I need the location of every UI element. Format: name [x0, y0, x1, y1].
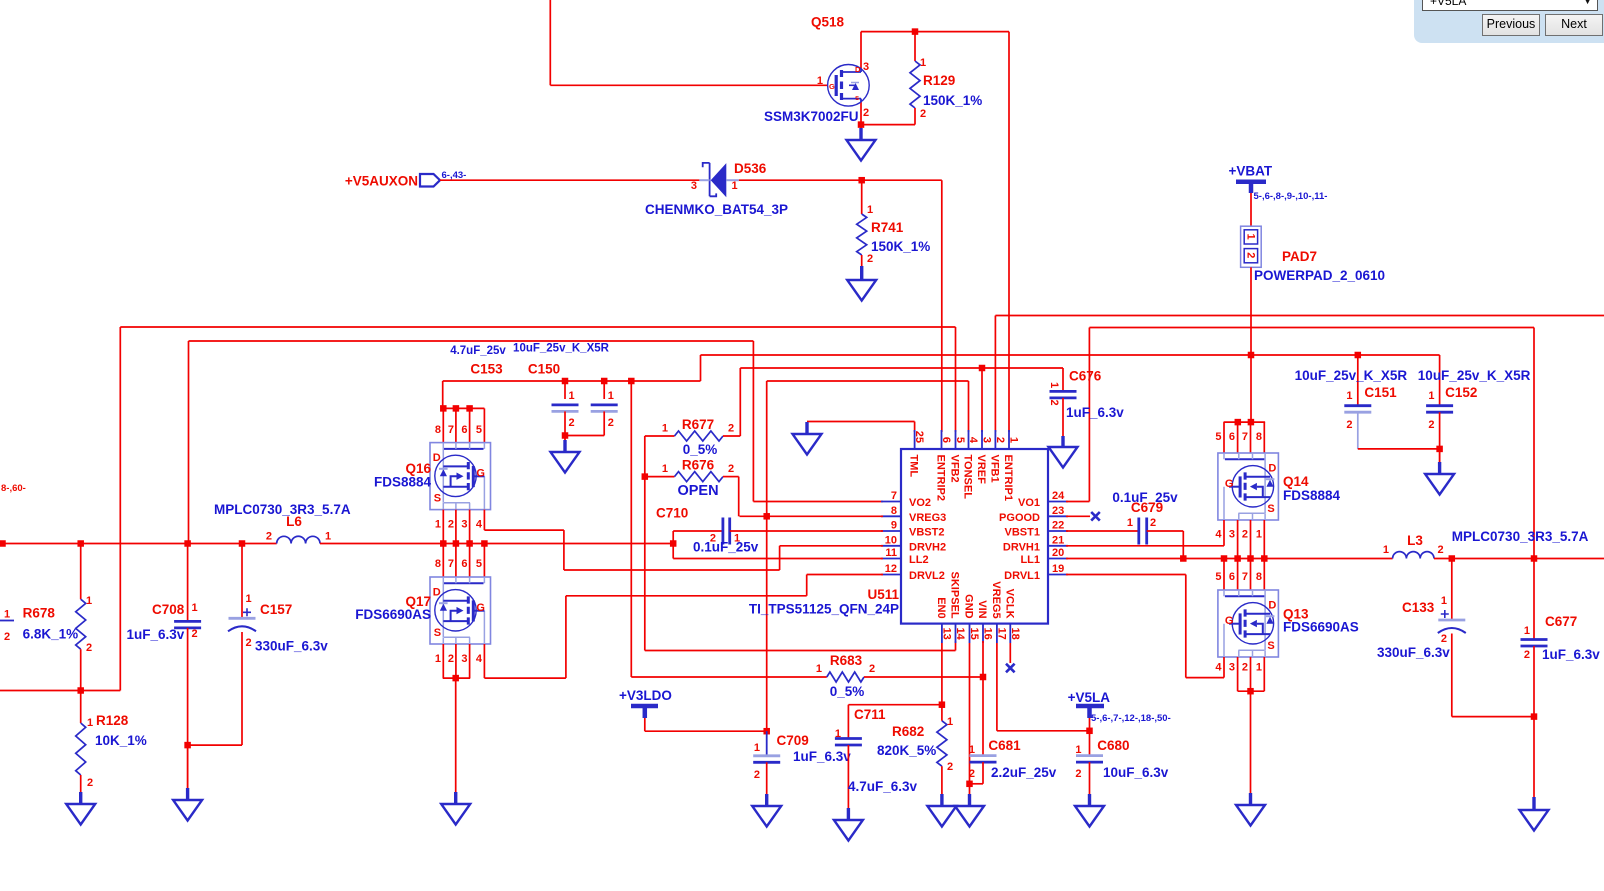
capacitor C152: [1426, 404, 1453, 407]
wire R676 right lead: [723, 476, 739, 478]
wire C157 top lead: [241, 544, 243, 619]
wire R683 to VIN pin: [864, 676, 983, 678]
pin 7 VO2: [881, 501, 901, 503]
ground under R682: [927, 794, 956, 827]
svg-text:LL2: LL2: [909, 554, 929, 566]
svg-text:G: G: [476, 602, 485, 614]
svg-text:1: 1: [662, 463, 668, 475]
ground under R741: [847, 266, 876, 301]
ground under C680: [1075, 794, 1104, 827]
svg-text:7: 7: [891, 490, 897, 502]
svg-text:10uF_25v_K_X5R: 10uF_25v_K_X5R: [513, 343, 610, 355]
wire Q17 source stub: [442, 644, 444, 678]
wire Q17 gate stub: [483, 644, 485, 678]
pin 1 ENTRIP1: [1008, 430, 1010, 449]
wire Q16 top pin stub: [455, 408, 457, 442]
svg-text:3: 3: [691, 180, 697, 192]
wire C710.2 to rail: [672, 531, 674, 544]
junction C708/VO2: [184, 540, 191, 547]
svg-text:C680: C680: [1097, 738, 1129, 753]
wire GND pin15 down: [969, 643, 971, 806]
wire VBST1 lead: [1066, 530, 1139, 532]
button Next: [1545, 14, 1603, 36]
wire Q13 source to gnd: [1250, 691, 1252, 805]
svg-text:C151: C151: [1364, 385, 1397, 400]
svg-text:1: 1: [1346, 390, 1352, 402]
svg-text:6: 6: [461, 424, 467, 436]
svg-text:G: G: [829, 82, 835, 91]
svg-text:2: 2: [994, 437, 1006, 443]
wire C676 top lead: [1062, 368, 1064, 391]
wire R677 right lead: [723, 435, 740, 437]
ground under C676: [1049, 436, 1078, 468]
wire Q14 source stub: [1237, 520, 1239, 559]
wire VO2 net: [189, 340, 754, 342]
svg-text:D: D: [855, 65, 861, 74]
svg-text:3: 3: [981, 437, 993, 443]
wire C708 top lead: [187, 544, 189, 621]
svg-text:2: 2: [947, 761, 953, 773]
wire V3LDO stem: [644, 718, 646, 731]
svg-text:820K_5%: 820K_5%: [877, 743, 936, 758]
svg-text:6: 6: [940, 437, 952, 443]
svg-text:DRVL2: DRVL2: [909, 570, 945, 582]
wire C711 top tie: [848, 704, 942, 706]
wire Q13 sources tie: [1238, 690, 1265, 692]
junction V5LA: [1086, 728, 1093, 735]
wire VFB1 vertical to pin 2: [994, 316, 996, 433]
wire Q13 source stub: [1263, 657, 1265, 691]
wire VBST1 to rail: [1182, 531, 1184, 558]
transistor Q14 FDS8884: [1218, 453, 1279, 520]
svg-text:24: 24: [1052, 490, 1065, 502]
ground TML: [793, 422, 822, 455]
junction C152 gnd: [1436, 446, 1443, 453]
wire VFB1 net: [995, 315, 1604, 317]
svg-text:5: 5: [476, 558, 482, 570]
svg-text:1: 1: [1441, 595, 1447, 607]
wire VFB2 vertical to pin 5: [955, 327, 957, 432]
wire cap grounds tie: [565, 435, 604, 437]
junction Q16 pin8: [440, 405, 447, 412]
transistor Q13 FDS6690AS: [1218, 590, 1279, 657]
svg-text:8: 8: [435, 558, 441, 570]
wire C680 top lead: [1089, 731, 1091, 755]
ground output right: [1520, 797, 1549, 831]
wire R682 bottom lead: [941, 766, 943, 806]
svg-text:+VBAT: +VBAT: [1229, 164, 1273, 179]
pin 9 VBST2: [881, 530, 901, 532]
wire SKIPSEL net: [645, 650, 956, 652]
junction R676.1: [642, 473, 649, 480]
svg-text:PGOOD: PGOOD: [999, 512, 1040, 524]
capacitor C133: [1438, 619, 1465, 622]
wire VO1 pin lead: [1066, 501, 1089, 503]
svg-text:6: 6: [1229, 571, 1235, 583]
wire C677 bottom lead: [1533, 646, 1535, 717]
wire PGOOD lead: [1066, 515, 1090, 517]
ground under C152: [1439, 449, 1441, 462]
wire C133 to gnd net: [1452, 716, 1534, 718]
svg-text:1: 1: [325, 531, 331, 543]
ground under Q13: [1236, 793, 1265, 826]
capacitor C157: [229, 617, 256, 620]
svg-text:C708: C708: [152, 602, 185, 617]
junction C681 gnd: [966, 781, 973, 788]
svg-text:C676: C676: [1069, 369, 1102, 384]
svg-text:C681: C681: [988, 738, 1021, 753]
wire C152 bottom lead: [1439, 412, 1441, 449]
svg-text:D536: D536: [734, 161, 767, 176]
capacitor C150: [591, 403, 618, 406]
pin 21 DRVH1: [1048, 545, 1068, 547]
svg-text:2: 2: [869, 663, 875, 675]
wire Q13 top pin stub: [1263, 559, 1265, 591]
pad PAD7: [1241, 226, 1262, 267]
wire DRVH2 run: [564, 569, 780, 571]
wire R678 bottom lead: [80, 649, 82, 690]
svg-text:s: s: [855, 93, 859, 102]
wire VIN pin16 stub: [982, 641, 984, 677]
wire VO1 vertical: [1088, 328, 1090, 502]
wire Q16 drain tie: [443, 407, 485, 409]
junction VIN feed: [628, 378, 635, 385]
capacitor C153: [552, 403, 579, 406]
resistor R678: [76, 599, 86, 649]
wire VBST2 row: [730, 530, 883, 532]
svg-text:1: 1: [86, 595, 92, 607]
wire R741 top lead: [861, 180, 863, 214]
junction R741 top: [858, 177, 865, 184]
junction cap ground: [562, 432, 569, 439]
junction VREF pin3: [979, 365, 986, 372]
wire V5LA stem: [1089, 718, 1091, 731]
ground under Q17: [441, 792, 470, 825]
wire DRVH2 row: [780, 545, 883, 547]
wire Q13 top pin stub: [1223, 559, 1225, 591]
svg-text:1: 1: [754, 742, 760, 754]
junction Q14 pin6: [1235, 419, 1242, 426]
wire Q16 source stub: [442, 510, 444, 544]
wire TONSEL vertical: [968, 381, 970, 432]
junction C677/VO1: [1531, 555, 1538, 562]
svg-text:2: 2: [1441, 633, 1447, 645]
svg-text:2: 2: [1524, 649, 1530, 661]
wire DRVL2 down to gate: [565, 596, 567, 678]
pin 3 VREF: [981, 430, 983, 449]
svg-text:S: S: [1267, 640, 1274, 652]
svg-text:C710: C710: [656, 506, 688, 521]
transistor Q16 FDS8884: [430, 443, 491, 510]
svg-text:U511: U511: [867, 587, 899, 602]
capacitor C681: [970, 754, 997, 757]
svg-text:C152: C152: [1445, 385, 1477, 400]
svg-text:PAD7: PAD7: [1282, 249, 1317, 264]
pin 16 VIN: [982, 624, 984, 643]
wire VO2 tap vertical: [188, 341, 190, 544]
junction Q17 drain: [481, 540, 488, 547]
svg-text:FDS8884: FDS8884: [374, 475, 432, 490]
junction VREG3 row: [763, 513, 770, 520]
wire gate feed vertical: [549, 0, 551, 85]
wire DRVL1 lead: [1066, 574, 1186, 576]
svg-text:FDS6690AS: FDS6690AS: [355, 607, 431, 622]
svg-text:1: 1: [1428, 390, 1434, 402]
junction rail: [466, 540, 473, 547]
svg-text:330uF_6.3v: 330uF_6.3v: [255, 639, 328, 654]
wire VREF vertical: [981, 368, 983, 432]
svg-text:2: 2: [1438, 544, 1444, 556]
wire Q518 drain up: [860, 32, 862, 69]
svg-text:DRVH1: DRVH1: [1003, 541, 1040, 553]
svg-text:L6: L6: [286, 514, 302, 529]
svg-text:12: 12: [885, 563, 897, 575]
wire Q17 gate tie: [484, 677, 566, 679]
junction Q518 source: [858, 121, 865, 128]
svg-text:1: 1: [835, 728, 841, 740]
svg-text:POWERPAD_2_0610: POWERPAD_2_0610: [1254, 268, 1385, 283]
svg-text:SKIPSEL: SKIPSEL: [949, 572, 961, 619]
wire SKIPSEL pin14 stub: [955, 641, 957, 651]
svg-text:R677: R677: [682, 417, 714, 432]
wire SKIPSEL vertical: [644, 477, 646, 651]
svg-text:C133: C133: [1402, 600, 1435, 615]
wire Q16 top pin stub: [442, 408, 444, 442]
svg-text:2: 2: [754, 769, 760, 781]
svg-text:5: 5: [476, 424, 482, 436]
junction C157: [239, 540, 246, 547]
svg-text:OPEN: OPEN: [677, 483, 718, 499]
svg-text:+V5LA: +V5LA: [1068, 690, 1111, 705]
svg-text:6: 6: [1229, 431, 1235, 443]
svg-text:1: 1: [569, 390, 575, 402]
svg-text:2: 2: [1242, 662, 1248, 674]
svg-text:C709: C709: [777, 733, 809, 748]
svg-text:2: 2: [920, 108, 926, 120]
wire VFB2 net: [120, 326, 955, 328]
pin 15 GND: [969, 624, 971, 643]
svg-text:2: 2: [246, 637, 252, 649]
svg-text:2: 2: [1428, 419, 1434, 431]
pin 13 EN0: [941, 624, 943, 643]
svg-text:2: 2: [1242, 529, 1248, 541]
wire Q16 source stub: [455, 510, 457, 544]
svg-text:1: 1: [435, 653, 441, 665]
svg-text:13: 13: [940, 628, 952, 640]
wire to Q518 gate: [550, 84, 827, 86]
wire Q13 source stub: [1237, 657, 1239, 691]
wire divider tap offpage: [0, 690, 120, 692]
svg-text:VIN: VIN: [976, 600, 988, 618]
wire LL2 row: [673, 558, 883, 560]
svg-text:D: D: [1268, 462, 1276, 474]
svg-text:C677: C677: [1545, 614, 1577, 629]
junction C150: [601, 378, 608, 385]
wire C153 top lead: [564, 381, 566, 399]
junction C679 rail: [1180, 555, 1187, 562]
svg-text:18: 18: [1009, 628, 1021, 640]
resistor R683: [827, 672, 864, 682]
wire Q13 top pin stub: [1250, 559, 1252, 591]
svg-text:MPLC0730_3R3_5.7A: MPLC0730_3R3_5.7A: [214, 502, 351, 517]
wire output rail left: [0, 543, 277, 545]
svg-text:Q518: Q518: [811, 15, 845, 30]
svg-text:R128: R128: [96, 713, 129, 728]
capacitor C677: [1521, 638, 1548, 641]
junction rail: [453, 540, 460, 547]
wire Q16 gate stub: [483, 510, 485, 530]
svg-text:2: 2: [192, 628, 198, 640]
wire Q17 top pin stub: [442, 544, 444, 578]
wire C711 bottom lead: [847, 745, 849, 820]
wire Q17 source stub: [469, 644, 471, 678]
wire gate jog down: [563, 530, 565, 570]
svg-text:2: 2: [448, 519, 454, 531]
svg-text:8: 8: [891, 505, 897, 517]
wire output rail right: [1434, 558, 1604, 560]
wire Q17 top pin stub: [455, 544, 457, 578]
svg-text:15: 15: [968, 628, 980, 640]
wire cap bottoms tie: [188, 744, 242, 746]
wire VIN vertical: [630, 381, 632, 677]
op-amp U511 TI_TPS51125_QFN_24P body: [901, 449, 1048, 624]
svg-text:VCLK: VCLK: [1003, 589, 1015, 619]
wire VBAT distribution: [701, 354, 1440, 356]
diode D536: [699, 163, 739, 197]
svg-text:VO1: VO1: [1018, 497, 1040, 509]
svg-text:10uF_6.3v: 10uF_6.3v: [1103, 765, 1169, 780]
wire Q14 top pin stub: [1263, 422, 1265, 453]
svg-text:1: 1: [920, 57, 926, 69]
wire C151/C152 gnd tie: [1358, 448, 1440, 450]
wire Q14 top pin stub: [1237, 422, 1239, 453]
wire Q14 source stub: [1250, 520, 1252, 559]
svg-text:4: 4: [967, 437, 979, 444]
wire Q13 source stub: [1250, 657, 1252, 691]
capacitor C708: [174, 620, 201, 623]
svg-text:VO2: VO2: [909, 497, 931, 509]
svg-text:3: 3: [863, 61, 869, 73]
wire VO1 to output rail: [1533, 328, 1535, 559]
svg-text:1: 1: [969, 744, 975, 756]
resistor R741: [857, 214, 867, 255]
wire R676.2 to VREG3: [738, 477, 740, 517]
wire VREF net: [740, 367, 1063, 369]
resistor R676: [675, 472, 724, 482]
svg-text:2: 2: [87, 777, 93, 789]
junction rail LL1: [1247, 555, 1254, 562]
wire R129 bottom lead: [914, 108, 916, 125]
wire Q14 top pin stub: [1223, 422, 1225, 453]
svg-text:4: 4: [476, 519, 483, 531]
svg-text:1: 1: [817, 75, 823, 87]
svg-text:2.2uF_25v: 2.2uF_25v: [991, 765, 1057, 780]
junction Q16 pin6: [466, 405, 473, 412]
wire DRVL1 to Q13 gate: [1186, 677, 1224, 679]
junction R129 top: [912, 28, 919, 34]
svg-text:10uF_25v_K_X5R: 10uF_25v_K_X5R: [1418, 368, 1531, 383]
pin 6 ENTRIP2: [941, 430, 943, 449]
svg-text:+V3LDO: +V3LDO: [619, 688, 672, 703]
port +V5AUXON: [420, 174, 440, 187]
svg-text:5-,6-,8-,9-,10-,11-: 5-,6-,8-,9-,10-,11-: [1254, 191, 1328, 202]
pin 10 DRVH2: [881, 545, 901, 547]
svg-text:1: 1: [1256, 662, 1262, 674]
wire TONSEL net: [767, 380, 969, 382]
svg-text:2: 2: [86, 642, 92, 654]
pin 19 DRVL1: [1048, 574, 1068, 576]
inductor L3: [1393, 552, 1434, 559]
pin 18 VCLK: [1009, 624, 1011, 643]
wire C677 top lead: [1533, 559, 1535, 640]
resistor R682: [937, 721, 947, 766]
svg-text:7: 7: [1242, 431, 1248, 443]
svg-text:MPLC0730_3R3_5.7A: MPLC0730_3R3_5.7A: [1452, 529, 1589, 544]
pin 4 TONSEL: [968, 430, 970, 449]
wire Q13 gate stub: [1223, 657, 1225, 678]
svg-text:1: 1: [4, 609, 10, 621]
wire Q16 top pin stub: [469, 408, 471, 442]
svg-text:R676: R676: [682, 458, 715, 473]
wire R682 top lead: [941, 705, 943, 721]
svg-text:C150: C150: [528, 362, 560, 377]
junction Q17 source gnd: [452, 675, 459, 682]
wire R129 to Q518 source: [861, 124, 915, 126]
junction C677 gnd: [1531, 713, 1538, 720]
wire drain to ENTRIP1 net: [861, 31, 1009, 33]
resistor R128: [76, 723, 86, 775]
svg-text:17: 17: [995, 628, 1007, 640]
svg-text:DRVL1: DRVL1: [1004, 570, 1040, 582]
junction Q16 pin7: [453, 405, 460, 412]
junction divider mid: [77, 687, 84, 694]
svg-text:2: 2: [608, 417, 614, 429]
wire +V5AUXON to D536: [440, 179, 699, 181]
svg-text:9: 9: [891, 520, 897, 532]
capacitor C710: [722, 518, 725, 545]
wire VREG5 down: [996, 643, 998, 731]
svg-text:6.8K_1%: 6.8K_1%: [23, 627, 79, 642]
svg-text:TML: TML: [908, 455, 920, 478]
wire TML stub: [914, 422, 916, 433]
wire Q16 top pin stub: [483, 408, 485, 442]
svg-text:14: 14: [954, 628, 966, 641]
junction Q13 drain: [1221, 555, 1228, 562]
ground under Q518: [860, 125, 862, 128]
wire Q17 top pin stub: [483, 544, 485, 578]
wire R677 left lead: [645, 435, 675, 437]
wire R128 bottom lead: [80, 775, 82, 804]
svg-text:2: 2: [1150, 517, 1156, 529]
junction Q14 pin7: [1248, 419, 1255, 426]
svg-text:1: 1: [1256, 529, 1262, 541]
svg-text:+V5AUXON: +V5AUXON: [345, 174, 418, 189]
svg-text:0_5%: 0_5%: [683, 442, 718, 457]
wire VREG5 to V5LA: [997, 730, 1090, 732]
wire R129 top lead: [914, 32, 916, 61]
svg-text:5-,6-,7-,12-,18-,50-: 5-,6-,7-,12-,18-,50-: [1091, 713, 1171, 724]
svg-text:5: 5: [1215, 431, 1221, 443]
svg-text:G: G: [476, 468, 485, 480]
wire R741 bottom lead: [861, 255, 863, 266]
svg-text:TI_TPS51125_QFN_24P: TI_TPS51125_QFN_24P: [749, 602, 899, 617]
svg-text:TONSEL: TONSEL: [962, 455, 974, 500]
wire Q17 top pin stub: [469, 544, 471, 578]
svg-text:1: 1: [246, 593, 252, 605]
wire C153 bottom lead: [564, 411, 566, 435]
svg-text:VBST1: VBST1: [1005, 527, 1040, 539]
svg-text:3: 3: [1229, 662, 1235, 674]
